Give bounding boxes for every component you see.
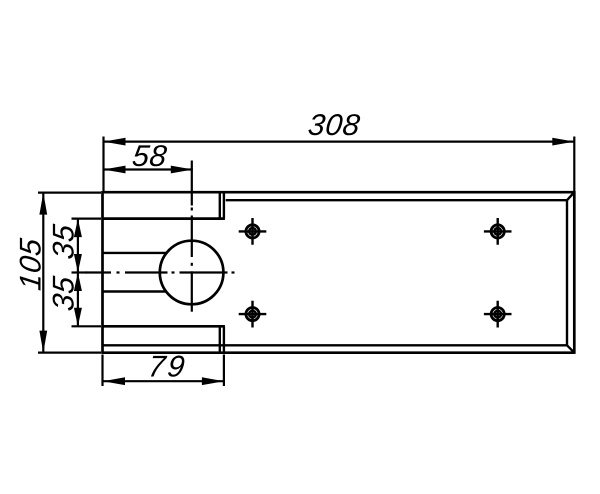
dim 35 center extension line bbox=[72, 271, 88, 273]
svg-text:58: 58 bbox=[130, 140, 169, 173]
dim 308 extension line left bbox=[102, 137, 104, 192]
spindle hole circle bbox=[160, 241, 224, 305]
dim 79 line bbox=[103, 380, 224, 382]
bottom tab right edge outer line bbox=[223, 326, 225, 352]
plate inner bottom chamfer line bbox=[103, 344, 568, 346]
fork arm lower edge bbox=[103, 290, 168, 292]
svg-text:79: 79 bbox=[146, 351, 188, 384]
screw hole top-right bbox=[484, 218, 512, 245]
dim 308 line bbox=[104, 141, 575, 143]
dim 58 arrow right bbox=[171, 166, 193, 174]
plate top edge bbox=[103, 191, 575, 194]
svg-text:35: 35 bbox=[48, 274, 81, 313]
top tab right edge inner line bbox=[219, 192, 221, 218]
screw hole bottom-right bbox=[484, 301, 512, 328]
dim 308 arrow left bbox=[104, 138, 126, 146]
svg-text:35: 35 bbox=[48, 222, 81, 261]
top tab right edge outer line bbox=[223, 192, 225, 218]
dim 35 upper arrow up bbox=[74, 219, 82, 238]
bottom-right corner chamfer diagonal bbox=[567, 345, 574, 352]
dim 105 line bbox=[42, 193, 44, 353]
dim 58 arrow left bbox=[104, 166, 126, 174]
plate left edge bbox=[101, 191, 104, 354]
dim 35 lower arrow down bbox=[74, 308, 82, 327]
screw hole top-left bbox=[239, 218, 267, 245]
dim 79 arrow left bbox=[103, 377, 125, 385]
dim 308 extension line right bbox=[573, 137, 575, 192]
fork arm upper edge bbox=[103, 252, 168, 254]
dim 79 extension line right bbox=[223, 355, 225, 387]
dim 79 extension line left bbox=[101, 355, 103, 387]
svg-text:308: 308 bbox=[306, 109, 362, 142]
dim 35 lower arrow up bbox=[74, 273, 82, 292]
dim 35 upper line bbox=[77, 219, 79, 273]
plate inner right chamfer line bbox=[566, 200, 568, 345]
dim 79 arrow right bbox=[202, 377, 224, 385]
top tab bottom edge (slot upper line) bbox=[103, 217, 225, 220]
screw hole bottom-left bbox=[239, 301, 267, 328]
dim 58 line bbox=[104, 168, 193, 170]
bottom tab right edge inner line bbox=[219, 326, 221, 352]
dim 105 extension line top bbox=[38, 192, 101, 194]
dim 308 arrow right bbox=[552, 138, 574, 146]
dim 35 upper arrow down bbox=[74, 254, 82, 273]
bottom tab top edge (slot lower line) bbox=[103, 325, 225, 328]
vertical centerline (also 58 extension line) bbox=[191, 161, 193, 312]
dim 35 upper extension line bbox=[72, 218, 102, 220]
dim 105 arrow bottom bbox=[39, 331, 47, 353]
plate right edge bbox=[573, 191, 576, 354]
dim 35 lower line bbox=[77, 273, 79, 327]
plate inner top chamfer line bbox=[226, 199, 567, 201]
horizontal centerline bbox=[86, 271, 235, 273]
plate bottom edge bbox=[103, 351, 575, 354]
top-right corner chamfer diagonal bbox=[567, 192, 574, 200]
dim 105 extension line bottom bbox=[38, 352, 101, 354]
svg-text:105: 105 bbox=[14, 236, 47, 292]
dim 105 arrow top bbox=[39, 193, 47, 215]
dim 35 lower extension line bbox=[72, 325, 102, 327]
